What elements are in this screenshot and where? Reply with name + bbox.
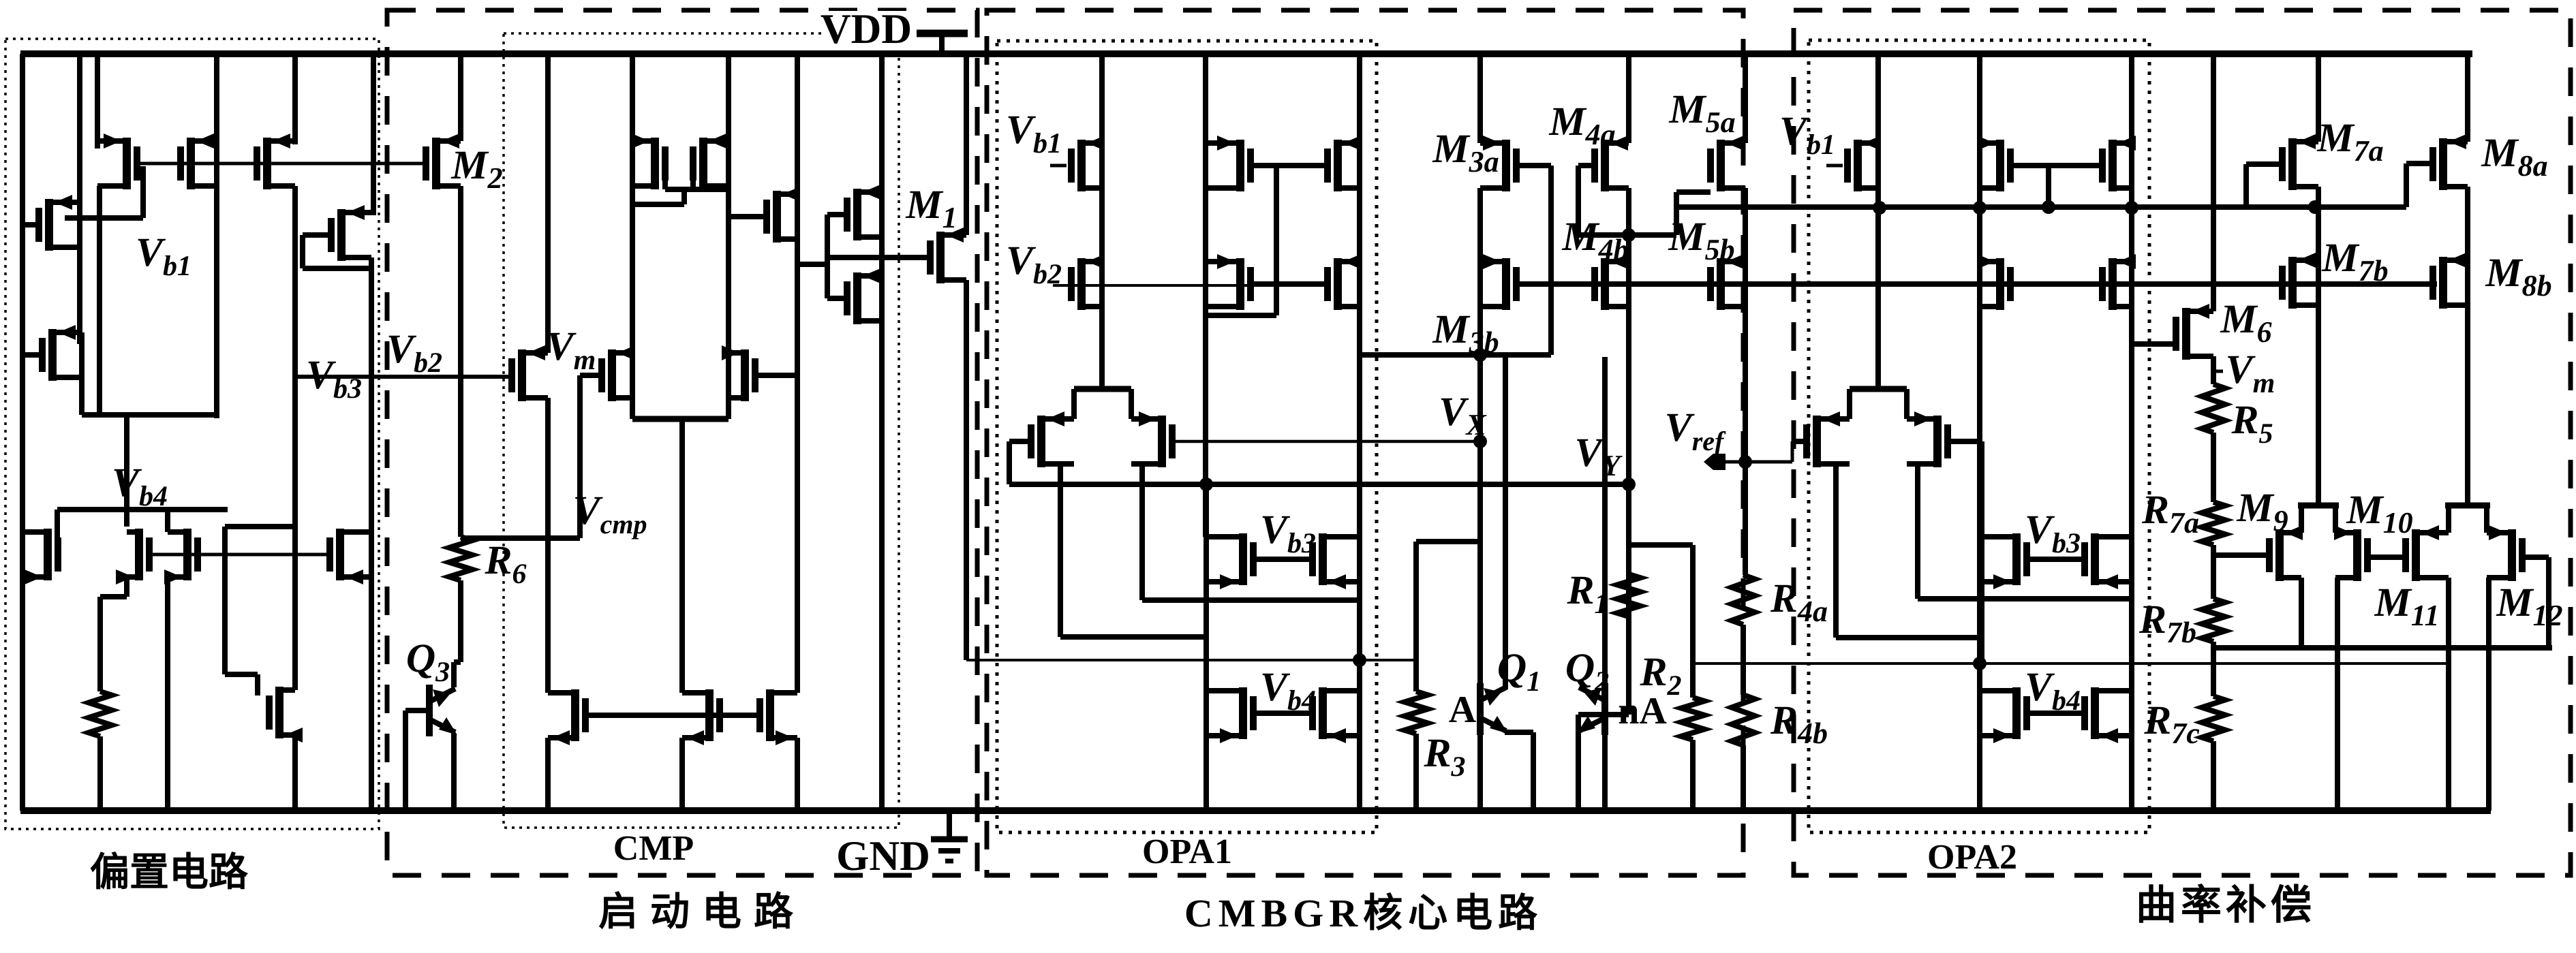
label OPA2 Vb1 [1779,108,1843,166]
svg-text:CMP: CMP [613,829,694,868]
svg-text:nA: nA [1618,690,1667,732]
wire x2561 Vref-R4a [1743,439,1745,575]
transistor P1 (bias mirror) [97,134,140,189]
wire R2 to gnd [1690,740,1696,811]
wire y463 cross [1206,313,1276,318]
label R7b [2138,597,2196,649]
wire pair left gate jog [1009,441,1031,484]
wire M11M12 T [2445,505,2490,533]
resistor R4a [1732,575,1755,625]
transistor M4b [1591,254,1629,310]
wire x1294 chain [879,54,885,811]
label Vref [1665,405,1726,456]
wire M7a gate riser [2246,164,2282,207]
wire x117 rail to N1 [77,54,82,344]
resistor R4b [1732,695,1755,745]
wire x2355 Q2 riser [1602,357,1608,685]
wire x1418 rail-M1 [964,54,969,235]
transistor M5b [1707,254,1745,310]
wire x2390 mid [1626,188,1631,715]
wire Q2 base chain to gnd [1602,734,1608,811]
gate N1 [22,222,41,228]
wire x143 rail to P1 [95,54,100,149]
transistor M7b [2279,253,2318,309]
transistor M4a [1591,136,1629,191]
wire M8a gate riser [2406,163,2432,207]
transistor OPA2 Vb1 PMOS [1844,136,1881,191]
wire bias left outer [20,54,25,811]
wire R4 mid [1741,625,1746,695]
svg-text:启动电路: 启动电路 [598,890,806,934]
transistor OPA2 Vb3 left [1980,533,2030,589]
label Vm [547,324,596,376]
label OPA2 Vb4 [2025,664,2081,717]
transistor CMP cross PMOS left [632,134,669,189]
wire Vb2 chain x545 [369,257,374,811]
transistor CMP P5 [844,268,882,324]
label Vx [1439,389,1487,441]
wire N2 drain down [79,332,85,415]
wire P1 diode loop [65,166,143,415]
label OPA1 Vb2 [1006,238,1062,290]
gate bus y417 [1518,281,2437,287]
svg-text:OPA2: OPA2 [1927,838,2017,877]
wire Vb2 thin line [1053,284,1318,287]
resistor R7b [2202,599,2225,642]
label R3 [1423,730,1465,783]
svg-text:OPA1: OPA1 [1142,832,1232,871]
wire P2 drain down [214,186,219,418]
transistor OPA2 row1 right [2099,136,2136,191]
transistor M3a [1480,136,1520,191]
wire M4a gate stub [1578,163,1594,168]
gate line bias bottom row [149,553,331,557]
label Vb4 bias [112,460,168,512]
label M5a [1668,87,1735,139]
wire x804 lower [545,398,551,811]
wire y951 bus [2213,645,2552,651]
resistor R1 [1617,574,1640,616]
wire Q3 emitter to gnd [451,734,457,811]
wire x433 rail to P3 [292,54,298,144]
label R5 [2230,397,2273,450]
gate M6 [2132,341,2176,347]
transistor OPA2 Vb3 right [2081,533,2132,589]
transistor OPA2 Vb4 right [2081,687,2132,743]
transistor OPA1 C1 [1206,254,1254,310]
label R1 [1566,567,1608,620]
wire OPA1 T-bar [1074,389,1131,419]
label OPA1 [1142,832,1232,871]
wire x3402 chain [2316,187,2321,505]
wire x1170 chain [795,54,800,693]
gate line CMP bottom row [587,713,758,718]
label M8b [2485,250,2551,302]
transistor CMP bottom N right [756,689,797,745]
wire M1 drain down [964,280,969,660]
wire x1170 to gnd [795,738,800,811]
wire gate bus y304 [1676,204,2406,210]
wire Vx out thick [1360,352,1551,358]
label M2 [450,142,502,195]
label M7a [2316,115,2383,168]
wire x1770 lower chain [1203,484,1209,811]
transistor N5 (bias bottom) [164,529,201,584]
startup circuit box (dashed) [387,10,977,875]
transistor OPA1 Vb3 left [1206,533,1257,589]
wire OPA2 right gate [1947,441,1982,663]
transistor N6 (bias bottom right) [326,529,371,584]
transistor M6 [2173,304,2213,360]
label OPA2 Vb3 [2025,507,2081,559]
bias circuit box (dotted) [5,39,379,829]
wire M5a gate loop [1676,192,1711,235]
wire x3128 chain [2129,54,2134,811]
transistor P3 (bias mirror) [254,134,295,189]
wire x928 chain [630,54,635,419]
transistor M2 [423,134,461,189]
transistor OPA1 pair left [1028,411,1074,467]
gate bar OPA1 Vb3 [1253,557,1313,562]
transistor OPA2 row2 right [2099,254,2136,310]
transistor CMP P3 [763,187,800,243]
label OPA2 [1927,838,2017,877]
wire P1 drain down [124,415,129,527]
label A [1449,689,1477,731]
wire CMP gate ties [797,215,848,298]
label R6 [484,537,526,590]
transistor M12 [2487,525,2526,581]
transistor M10 [2334,525,2371,581]
wire OPA2 T-bar [1850,389,1907,419]
wire M12 gate riser [2522,557,2549,648]
label M12 [2496,580,2562,632]
resistor R2 [1681,698,1704,740]
label Vb1 bias [136,230,191,282]
transistor M9 [2266,525,2303,581]
label R4b [1770,698,1828,750]
transistor N4 (bias bottom) [116,529,153,584]
wire x1617 chain [1099,54,1105,389]
label M4b [1561,214,1628,266]
wire x2276 riser [1548,166,1554,355]
label OPA1 Vb4 [1260,664,1316,717]
wire M10 drain drop [2335,578,2337,811]
svg-text:偏置电路: 偏置电路 [90,850,249,894]
wire M3a gate stub [1518,163,1551,168]
wire x676 rail-M2 [458,54,463,141]
wire OPA2 pair right drain [1918,464,2132,599]
gate NA Vcmp [580,373,602,378]
transistor OPA2 Vb4 left [1980,687,2030,743]
label Vb3 tap [305,352,365,405]
label Q1 [1497,645,1541,698]
wire Vy chain bottom [1578,712,1629,717]
transistor CMP NA [598,345,635,401]
CMP box (dotted) [504,33,899,828]
label M3b [1432,307,1499,359]
transistor ND1 diode NMOS (bias right) [328,205,371,261]
wire x3621 chain [2465,187,2470,505]
wire y609 bus [82,412,217,418]
wire ND2 to gnd [292,735,298,811]
wire R5-R7a [2211,433,2216,502]
transistor OPA2 row1 left [1977,136,2014,191]
wire thin feedback M1-R3 [966,659,1416,661]
label R2 [1639,649,1681,702]
wire x3248 chain top [2211,54,2216,311]
wire thin feedback R2-R7 [1693,662,2213,665]
wire M6 to R5 [2211,356,2216,384]
label M4a [1548,99,1615,151]
gate M1 [827,255,931,260]
wire x1873 gate riser [1253,166,1325,315]
transistor OPA1 pair right [1131,411,1176,467]
label M8a [2481,130,2547,183]
transistor CMP tail N (x844) [548,689,589,745]
transistor M7a [2279,134,2318,190]
wire M12 drain drop [2487,578,2489,811]
VDD rail [20,50,2472,57]
wire ND1 gate loop [303,235,371,268]
gate NB [754,373,797,378]
transistor M8a [2429,134,2468,190]
wire pair right drain [1142,464,1360,600]
wire Vref to OPA2 [1745,441,1792,462]
label R7c [2143,698,2200,750]
transistor OPA2 pair right [1907,411,1951,467]
VDD symbol [917,33,968,54]
gate CMP P3 [729,214,767,219]
wire pair left drain [1060,464,1206,637]
junction dots [1199,200,2322,670]
label CMBGR [1184,891,1543,935]
label CMP [613,829,694,868]
label nA [1618,690,1667,732]
transistor OPA1 B1 [1206,136,1254,191]
label M3a [1432,126,1499,178]
label M5b [1668,214,1734,266]
transistor P2 (bias mirror) [177,134,217,189]
transistor CMP P4 [844,185,882,240]
transistor N2 (bias) [39,325,82,381]
transistor N1 (bias) [35,195,80,251]
transistor CMP bottom N left [682,689,723,745]
resistor R3 [1405,691,1428,734]
wire x2756 chain [1875,54,1881,389]
transistor OPA2 pair left [1803,411,1850,467]
label bias [90,850,249,894]
svg-text:GND: GND [836,833,930,879]
svg-text:VDD: VDD [821,6,912,52]
gate N2 [22,352,44,358]
wire M9M10 T [2298,505,2339,533]
gate line bias PMOS row to M2 [139,162,423,166]
wire R3 top [1416,542,1480,691]
wire N4 drain to R [100,577,127,691]
curvature compensation box (dashed) [1794,10,2571,875]
label OPA1 Vb1 [1006,107,1067,166]
label curvature [2136,883,2316,928]
transistor ND2 diode NMOS (bias bottom) [266,687,303,743]
wire x2316 riser [1576,166,1581,235]
transistor M8b [2429,253,2468,309]
wire OPA2 left gate jog [1792,439,1807,444]
label M11 [2374,580,2440,632]
resistor R5 [2202,384,2225,433]
svg-text:曲率补偿: 曲率补偿 [2136,883,2316,928]
wire x1995 chain [1357,54,1362,811]
transistor Q1 (BJT) [1477,683,1508,735]
OPA2 box (dotted) [1809,40,2149,832]
label OPA1 Vb3 [1260,507,1316,559]
wire x2172 mid [1477,188,1483,685]
wire Q1 emitter [1505,732,1533,811]
wire R7b-R7c [2211,642,2216,696]
transistor OPA1 Vb2 PMOS [1068,254,1105,310]
wire Vy line [1009,482,1629,487]
wire N5 drain down [165,577,170,811]
transistor OPA1 Vb4 left [1206,687,1257,743]
wire x2561 rail [1743,54,1748,143]
transistor OPA2 row2 left [1977,254,2014,310]
wire pair right gate to Vx [1171,440,1480,443]
wire x804 rail down [545,54,551,353]
transistor VmN (CMP input) [508,345,548,401]
wire M9 drain drop [2299,578,2304,648]
resistor R6 [449,537,472,580]
transistor Q2 (BJT) [1577,683,1608,735]
wire CMP NaNb source T [632,419,729,693]
transistor N3 (bias bottom) [22,529,61,584]
resistor bias [89,691,112,736]
wire thin y974 right [2213,662,2448,665]
wire x2561 mid [1743,188,1748,575]
svg-text:CMBGR核心电路: CMBGR核心电路 [1184,891,1543,935]
resistor R7c [2202,696,2225,741]
wire R3 to gnd [1413,734,1419,811]
label Vcmp [573,488,647,540]
ground symbol [931,811,968,861]
transistor CMP NB [722,345,758,401]
gate bar OPA2 row1 [2010,166,2103,207]
wire Q2 emitter [1578,715,1580,811]
wire Q3 collector [454,662,461,687]
gate tie M10-M11 [2367,554,2406,560]
transistor OPA1 Vb1 PMOS [1068,136,1105,191]
gate bar OPA1 Vb4 [1253,710,1313,716]
label M1 [905,182,957,234]
label Vm2 [2213,347,2275,399]
transistor M3b [1480,254,1520,310]
wire y345 tie [1578,232,1676,238]
label Vb2 [386,326,442,379]
transistor OPA1 B2 [1324,136,1361,191]
wire x318 rail down [214,54,219,415]
wire Q1 base chain to gnd [1477,734,1483,811]
wire Q3 base [405,710,426,811]
label M6 [2220,296,2271,349]
wire R6 to Q3 [458,580,463,662]
wire x2390 rail [1626,54,1631,143]
OPA1 box (dotted) [997,41,1377,832]
transistor CMP cross PMOS right [690,134,729,189]
wire M2 drain chain [458,186,463,537]
resistor R7a [2202,502,2225,545]
wire x1069 chain [726,54,731,419]
wire R7c-gnd [2211,741,2216,811]
label R7a [2141,487,2199,540]
gate bar OPA2 Vb4 [2026,710,2085,716]
label M7b [2321,235,2388,287]
GND label [836,833,930,879]
label Q2 [1565,645,1609,698]
wire x3621 rail [2465,54,2470,142]
wire ND2 gate loop [225,527,295,696]
wire R4b to gnd [1741,745,1746,811]
wire x1769 chain [1203,54,1208,537]
Vref port [1704,454,1745,470]
wire R2 branch top [1629,545,1693,698]
wire M11 drain drop [2446,578,2451,811]
wire x2905 chain [1977,54,1982,811]
wire x2172 rail [1477,54,1483,143]
wire Vb2 line [295,375,513,379]
wire OPA2 pair left drain [1836,464,1980,638]
transistor Q3 (BJT) [426,685,457,736]
wire R bias to gnd [97,736,103,811]
wire x3402 rail [2316,54,2321,142]
label Vy [1575,430,1623,482]
transistor OPA1 Vb3 right [1309,533,1360,589]
label startup [598,890,806,934]
label M10 [2346,487,2412,540]
transistor M11 [2402,525,2449,581]
svg-text:A: A [1449,689,1477,731]
transistor OPA1 C2 [1324,254,1361,310]
transistor M5a [1707,136,1745,191]
wire Vb3 chain x433 [292,186,298,690]
VDD label [821,6,912,52]
wire x552 rail down [371,54,376,215]
gate M9 tap [2213,552,2269,558]
transistor OPA1 Vb4 right [1309,687,1360,743]
wire R7a-R7b [2211,545,2216,599]
transistor M1 [927,228,966,283]
label R4a [1770,576,1828,628]
wire Vcmp [461,375,580,538]
label Q3 [406,636,450,688]
wire x1001 to gnd [679,738,685,811]
wire y748 loop [57,510,228,538]
GND rail [20,807,2491,814]
wire x2209 Q1 riser [1503,355,1508,689]
wire cross couple [632,181,729,204]
CMBGR core box (dashed) [987,10,1743,875]
gate bar OPA2 Vb3 [2026,557,2085,562]
label M9 [2236,485,2288,537]
